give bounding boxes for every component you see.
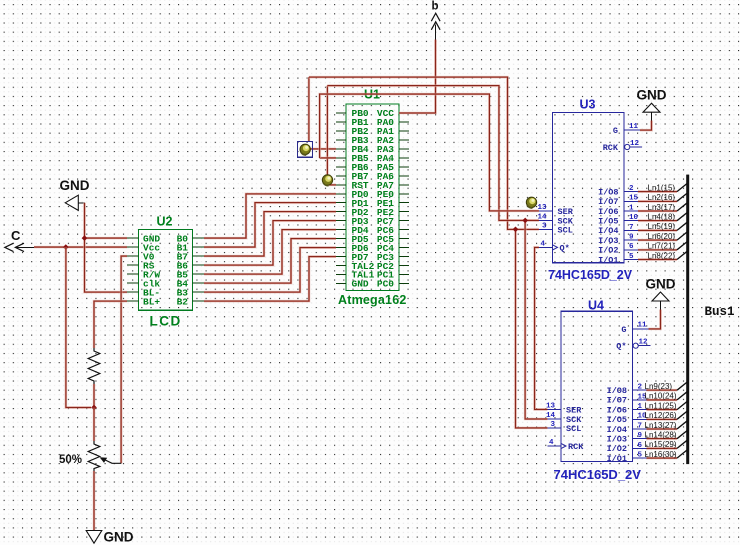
wire U3 I/O5 to bus with label Ln4(18) [638, 213, 687, 222]
svg-text:I/O4: I/O4 [598, 226, 618, 236]
svg-text:I/O8: I/O8 [607, 386, 627, 396]
U2 pin names GND Vcc V0 RS R/W clk BL- BL+ / B0 B1 B7 B6 B5 B4 B3 B2 [143, 233, 188, 307]
svg-text:13: 13 [537, 204, 547, 212]
svg-text:Ln5(19): Ln5(19) [648, 222, 676, 231]
svg-text:SCL: SCL [566, 424, 581, 434]
label Atmega162 [338, 293, 407, 307]
wire U4 I/O7 to bus with label Ln10(24) [645, 392, 688, 401]
svg-text:B2: B2 [177, 296, 189, 307]
svg-text:Atmega162: Atmega162 [338, 293, 407, 307]
svg-text:2: 2 [629, 185, 634, 193]
terminal C (off-page connector) with left chevrons [5, 228, 34, 252]
node junction U3.SCK branch [522, 218, 528, 224]
svg-text:7: 7 [638, 422, 643, 430]
svg-text:I/O6: I/O6 [598, 207, 618, 217]
IC U2 LCD body and pin stubs [127, 229, 204, 310]
wire U4 I/O3 to bus with label Ln14(28) [645, 431, 688, 440]
svg-text:I/O6: I/O6 [607, 405, 627, 415]
svg-text:I/O5: I/O5 [607, 415, 627, 425]
svg-text:I/O7: I/O7 [607, 396, 627, 406]
wire U3 pin G(11) to GND [640, 121, 652, 131]
wire U2.B5 to U1.PD4 [204, 230, 336, 275]
wire U2.BL+ to resistor R1 top [94, 301, 127, 348]
svg-text:Ln4(18): Ln4(18) [648, 213, 676, 222]
svg-text:9: 9 [629, 234, 634, 242]
svg-text:Ln8(22): Ln8(22) [648, 251, 676, 260]
label LCD [150, 314, 182, 329]
svg-text:9: 9 [638, 432, 643, 440]
wire C net down to resistor/pot junction [66, 247, 91, 407]
wire U3 I/O2 to bus with label Ln7(21) [638, 242, 687, 251]
svg-text:6: 6 [638, 442, 643, 450]
svg-text:11: 11 [629, 123, 639, 131]
wire U2.B0 to U1.PD0 [204, 194, 336, 238]
wire U2.B7 to U1.PD2 [204, 212, 336, 256]
svg-text:G: G [621, 325, 626, 335]
svg-text:6: 6 [629, 243, 634, 251]
svg-text:Ln9(23): Ln9(23) [645, 382, 673, 391]
svg-text:Q*: Q* [616, 342, 626, 352]
wire U4 I/O5 to bus with label Ln12(26) [645, 411, 688, 420]
wire U2.B1 to U1.PD1 [204, 203, 336, 247]
svg-text:I/O2: I/O2 [598, 246, 618, 256]
label 74HC165D_2V (U4) [554, 467, 642, 482]
wire junction down to potentiometer top [93, 408, 96, 442]
terminal b (on-page connector) with up arrow [431, 1, 440, 41]
svg-text:Bus1: Bus1 [705, 305, 735, 319]
wire U3 I/O6 to bus with label Ln3(17) [638, 203, 687, 212]
svg-text:U3: U3 [580, 98, 596, 112]
svg-text:74HC165D_2V: 74HC165D_2V [554, 467, 642, 482]
wire U2.B3 to U1.PD6 [204, 248, 336, 293]
U1 pin names PB0-PB7 RST PD0-PD7 TAL2 TAL1 GND / VCC PA0-PA7 PE0-PE2 PC7-PC0 [352, 108, 395, 290]
svg-text:I/O7: I/O7 [598, 197, 618, 207]
wire U2.B2 to U1.PD7 [204, 257, 336, 302]
wire U2.V0 to potentiometer wiper [121, 256, 127, 463]
svg-text:74HC165D_2V: 74HC165D_2V [548, 268, 633, 282]
svg-text:BL+: BL+ [143, 296, 160, 307]
svg-text:PC0: PC0 [377, 279, 394, 290]
label U1 [364, 88, 380, 102]
resistor R1 (zigzag) [88, 348, 100, 384]
svg-text:C: C [11, 228, 21, 243]
svg-text:5: 5 [638, 452, 643, 460]
ground GND above U4 [646, 277, 676, 311]
node junction U3.SCL branch [513, 226, 519, 232]
node junction GND net at U2.GND row [82, 235, 88, 241]
svg-text:Ln14(28): Ln14(28) [645, 431, 677, 440]
label 50% [59, 454, 82, 466]
U4 pin names G Q* SER SCK SCL RCK I/O8-I/O1 [566, 325, 627, 464]
probe ball on RST wire [322, 175, 332, 186]
svg-text:12: 12 [630, 140, 640, 148]
wire U4 I/O6 to bus with label Ln11(25) [645, 401, 688, 410]
wire U4 I/O4 to bus with label Ln13(27) [645, 421, 688, 430]
svg-text:I/O3: I/O3 [607, 435, 627, 445]
svg-text:Ln7(21): Ln7(21) [648, 242, 676, 251]
svg-text:50%: 50% [59, 454, 82, 466]
ground GND left (arrow) [60, 178, 90, 210]
wire U3.Q* to U4.SER [535, 247, 548, 409]
svg-text:Ln1(15): Ln1(15) [648, 183, 676, 192]
wire GND arrow to U2.GND and U2.BL- [85, 203, 128, 292]
label U4 [588, 299, 604, 313]
svg-text:12: 12 [639, 339, 649, 347]
wire resistor R1 bottom to junction [93, 384, 96, 408]
U3 pin names G RCK SER SCK SCL Q* I/O8-I/O1 [558, 126, 619, 265]
svg-text:Ln13(27): Ln13(27) [645, 421, 677, 430]
svg-text:I/O1: I/O1 [598, 255, 618, 265]
svg-text:Ln6(20): Ln6(20) [648, 232, 676, 241]
svg-text:Q*: Q* [560, 243, 570, 253]
ground GND above U3 [637, 88, 667, 122]
svg-text:I/O2: I/O2 [607, 444, 627, 454]
svg-text:Ln12(26): Ln12(26) [645, 411, 677, 420]
wire U1 VCC to terminal b [399, 40, 436, 114]
svg-text:1: 1 [629, 204, 634, 212]
svg-text:SER: SER [566, 405, 582, 415]
wire net RST - U3.SCK - U4.SCK [327, 86, 547, 419]
svg-text:13: 13 [546, 403, 556, 411]
svg-text:7: 7 [629, 224, 634, 232]
svg-text:LCD: LCD [150, 314, 182, 329]
wire U3 I/O3 to bus with label Ln6(20) [638, 232, 687, 241]
svg-text:I/O4: I/O4 [607, 425, 627, 435]
svg-text:GND: GND [352, 279, 369, 290]
wire potentiometer bottom to GND [93, 471, 96, 531]
node junction resistor/potentiometer/C-net [91, 405, 97, 411]
label U2 [157, 215, 173, 229]
wire net C to U2.Vcc [34, 246, 127, 249]
bus Bus1 vertical bar [686, 175, 689, 465]
svg-text:4: 4 [549, 439, 554, 447]
wire U4 I/O2 to bus with label Ln15(29) [645, 440, 688, 449]
label U3 [580, 98, 596, 112]
wire net PB5 - U3.SER [320, 94, 539, 211]
svg-text:I/O1: I/O1 [607, 454, 627, 464]
svg-text:Ln3(17): Ln3(17) [648, 203, 676, 212]
svg-text:SER: SER [558, 207, 574, 217]
probe square with ball on PB4 wire [298, 142, 313, 158]
IC U3 74HC165D_2V body and pin stubs [539, 113, 642, 263]
wire U3 I/O4 to bus with label Ln5(19) [638, 222, 687, 231]
svg-text:GND: GND [637, 88, 667, 103]
svg-text:14: 14 [546, 412, 556, 420]
svg-text:1: 1 [638, 403, 643, 411]
IC U4 74HC165D_2V body and pin stubs [547, 311, 650, 461]
node junction C net to resistor chain [63, 244, 69, 250]
label 74HC165D_2V (U3) [548, 268, 633, 282]
wire U4 I/O8 to bus with label Ln9(23) [645, 382, 688, 391]
svg-text:I/O8: I/O8 [598, 187, 618, 197]
svg-text:4: 4 [541, 241, 546, 249]
svg-text:5: 5 [629, 253, 634, 261]
svg-text:G: G [613, 126, 618, 136]
svg-text:b: b [432, 1, 439, 13]
svg-text:Ln15(29): Ln15(29) [645, 440, 677, 449]
svg-text:2: 2 [638, 384, 643, 392]
ground GND bottom [86, 530, 134, 545]
svg-text:Ln2(16): Ln2(16) [648, 193, 676, 202]
svg-text:3: 3 [542, 223, 547, 231]
wire U3 I/O7 to bus with label Ln2(16) [638, 193, 687, 202]
svg-text:Ln11(25): Ln11(25) [645, 401, 677, 410]
svg-text:GND: GND [60, 178, 90, 193]
svg-text:11: 11 [638, 322, 648, 330]
IC U1 Atmega162 body and pin stubs [336, 104, 409, 291]
svg-text:14: 14 [537, 214, 547, 222]
svg-text:RCK: RCK [568, 442, 584, 452]
svg-text:U2: U2 [157, 215, 173, 229]
svg-text:RCK: RCK [603, 143, 619, 153]
wire U4 pin G(11) to GND [649, 310, 661, 329]
wire net PB4 - U3.SCL - U4.SCL [305, 77, 547, 428]
svg-text:Ln10(24): Ln10(24) [645, 392, 677, 401]
U3 pin numbers 11 12 13 14 3 4 2 15 1 10 7 9 6 5 [537, 123, 639, 261]
wire U2.B6 to U1.PD3 [204, 221, 336, 266]
svg-text:GND: GND [646, 277, 676, 292]
svg-text:I/O3: I/O3 [598, 236, 618, 246]
svg-text:10: 10 [629, 214, 639, 222]
svg-text:I/O5: I/O5 [598, 217, 618, 227]
svg-text:15: 15 [629, 195, 639, 203]
wire U4 I/O1 to bus with label Ln16(30) [645, 450, 688, 459]
svg-text:U4: U4 [588, 299, 604, 313]
probe ball on U3.SER wire [526, 197, 536, 208]
svg-text:Ln16(30): Ln16(30) [645, 450, 677, 459]
label Bus1 [705, 305, 735, 319]
wire U2.B4 to U1.PD5 [204, 239, 336, 284]
wire U3 I/O8 to bus with label Ln1(15) [638, 183, 687, 192]
U4 pin numbers 11 12 13 14 3 4 2 15 1 10 7 9 6 5 [546, 322, 648, 460]
wire U3 I/O1 to bus with label Ln8(22) [638, 251, 687, 260]
potentiometer RV1 (zigzag with wiper arrow) value 50% [88, 441, 121, 471]
svg-text:SCL: SCL [558, 225, 573, 235]
svg-text:3: 3 [550, 421, 555, 429]
svg-text:GND: GND [104, 530, 134, 545]
